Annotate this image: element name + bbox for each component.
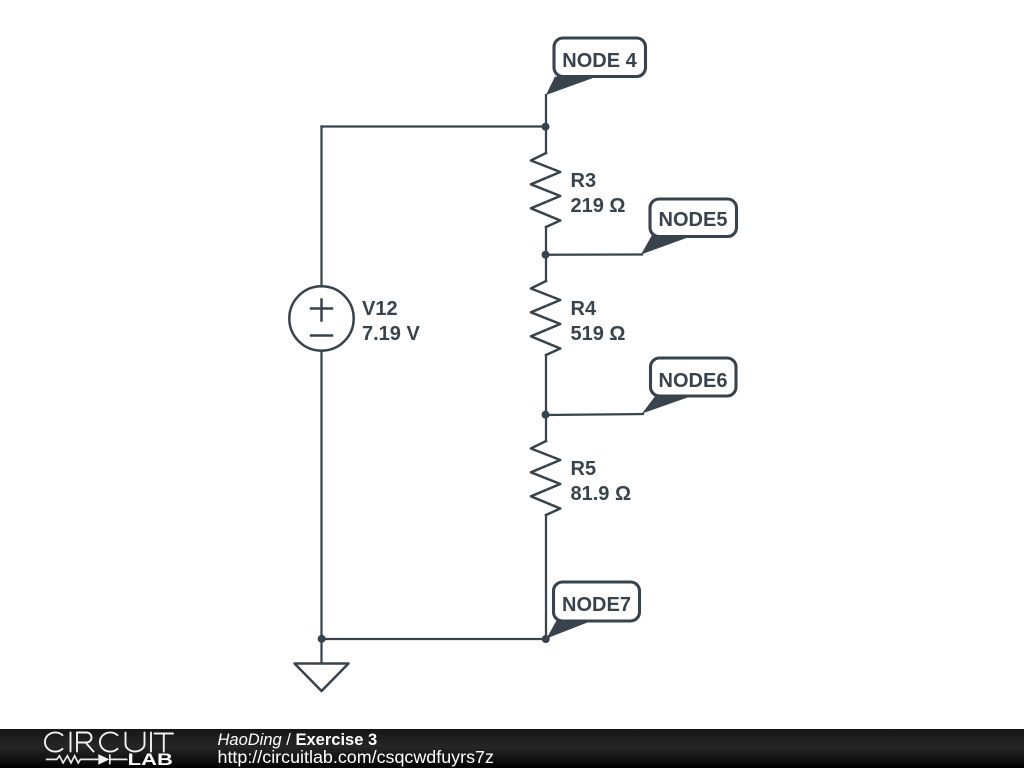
NODE5 flag tail (641, 235, 689, 255)
NODE5 flag box (650, 199, 737, 237)
junction node 4 dot (542, 123, 550, 131)
V12 plus sign (311, 307, 332, 310)
logo diode triangle (98, 754, 109, 765)
junction ground dot (318, 635, 326, 643)
svg-text:LAB: LAB (128, 751, 173, 768)
wire bottom horizontal (ground rail to NODE7) (322, 638, 547, 640)
wire left vertical lower (V12 minus terminal to bottom rail) (320, 351, 322, 640)
V12 minus sign (311, 334, 332, 337)
wire left vertical upper (top rail to V12 plus terminal) (320, 127, 322, 287)
junction node 7 dot (542, 635, 550, 643)
NODE 4 flag box (554, 38, 646, 77)
NODE 4 flag tail (546, 77, 593, 96)
logo resistor-diode symbol (46, 754, 128, 764)
NODE6 flag tail (642, 395, 689, 414)
resistor R5 body (zigzag) (531, 441, 560, 515)
logo letter I2 (150, 733, 152, 752)
ground stub wire (320, 639, 322, 664)
wire NODE5 horizontal tap (546, 253, 642, 255)
wire right vertical stub from NODE4 flag to top junction (545, 95, 547, 153)
footer bar (0, 729, 1024, 768)
NODE6 flag box (651, 358, 737, 396)
resistor R3 body (zigzag) (531, 153, 560, 227)
logo letter C2 (100, 732, 118, 751)
logo letter R (77, 733, 94, 752)
logo letter I1 (70, 733, 72, 752)
wire R3 bottom to R4 top (545, 227, 547, 281)
logo letter U (126, 733, 145, 752)
wire top horizontal (V12+ to node 4 rail) (322, 125, 547, 127)
wire R4 bottom to R5 top (545, 355, 547, 441)
wire R5 bottom to bottom rail (545, 515, 547, 639)
junction node 6 dot (542, 411, 550, 419)
svg-text:http://circuitlab.com/csqcwdfu: http://circuitlab.com/csqcwdfuyrs7z (218, 747, 494, 767)
NODE7 flag tail (547, 621, 591, 639)
junction node 5 dot (542, 251, 550, 259)
NODE7 flag box (554, 582, 640, 621)
resistor R4 body (zigzag) (531, 281, 560, 355)
voltage source V12 circle (289, 286, 353, 350)
CircuitLab logo wordmark CIRCUIT (drawn thin strokes) (45, 732, 173, 751)
logo letter T (155, 734, 174, 752)
logo letter C1 (45, 732, 63, 751)
wire NODE6 horizontal tap (546, 414, 643, 415)
ground triangle (295, 664, 349, 692)
